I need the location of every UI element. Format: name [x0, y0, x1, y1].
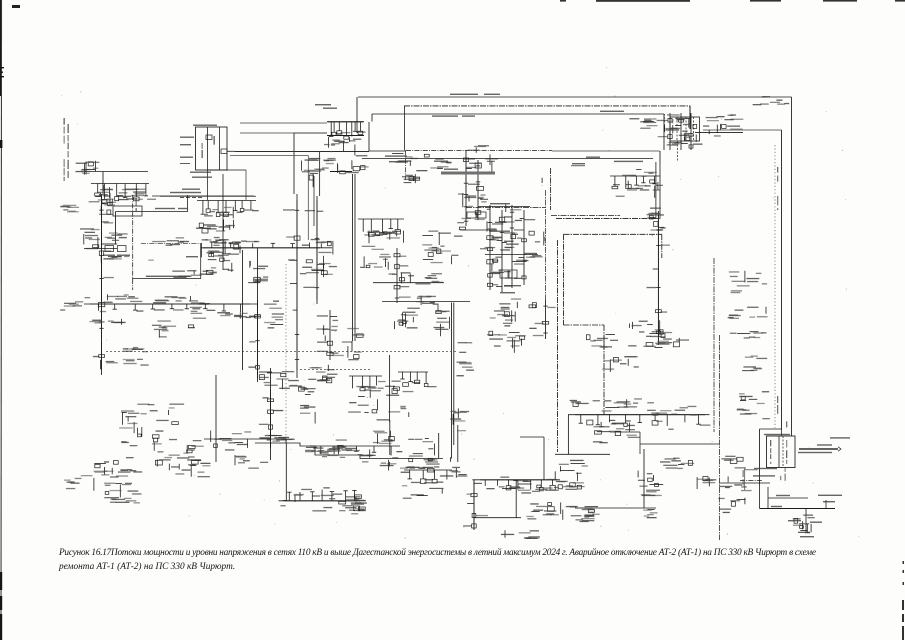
bus 248 right: [201, 247, 332, 249]
substation 610 comb: [610, 176, 663, 191]
substation 489: [490, 298, 537, 329]
vertical label column left 2: [68, 124, 69, 178]
chain left: [89, 194, 111, 215]
bus far-left vertical: [101, 194, 103, 375]
label 830: [830, 437, 850, 438]
substation 300-160: [302, 158, 329, 187]
labels 360-250: [360, 246, 391, 270]
frame box2: [221, 149, 227, 154]
label Chiryurt110 top: [193, 125, 217, 126]
bus 150 dashdot: [406, 149, 552, 151]
labels VL35: [123, 347, 148, 352]
labels 368-430: [373, 431, 394, 444]
wire 201 down: [201, 243, 203, 257]
wire dashdot 466: [465, 158, 467, 208]
substation 352: [346, 496, 367, 514]
bus 479: [472, 479, 560, 481]
region dashdot bottom1: [551, 215, 620, 217]
substation big 346: [348, 381, 413, 421]
svg-text:ремонта АТ-1 (АТ-2) на ПС 330: ремонта АТ-1 (АТ-2) на ПС 330 кВ Чирюрт.: [58, 561, 235, 572]
block inner AT-1: [676, 117, 678, 141]
substation 585: [587, 420, 640, 443]
chain chir330c: [684, 113, 703, 150]
bus dotted 351: [106, 351, 456, 353]
wire drop 246: [245, 170, 247, 200]
label PS330 top: [764, 434, 790, 435]
wire label 571: [571, 165, 585, 167]
frame inner v1: [778, 436, 780, 468]
substation 79-225: [80, 228, 100, 249]
label left1: [180, 137, 194, 138]
scan edge left bottom dashes: [0, 572, 2, 640]
substation 460: [461, 145, 498, 220]
wire drop 207: [207, 170, 209, 200]
labels 160-270: [172, 270, 217, 278]
scan edge left line: [0, 0, 3, 640]
wire dashdot br left: [740, 480, 762, 482]
bus center v2: [451, 303, 453, 446]
labels 208: [211, 431, 252, 451]
annotation region top: [116, 211, 188, 213]
wire dashdot 714: [713, 258, 715, 432]
wire dashdot 405 down: [405, 150, 407, 180]
bus 414: [568, 414, 710, 416]
substation small left: [76, 161, 100, 175]
substation 628: [628, 320, 663, 347]
region2 dashdot right: [603, 325, 605, 415]
arrow head: [838, 447, 841, 451]
chain 524: [515, 210, 536, 285]
labels 727e: [737, 391, 770, 419]
transformer block Chiryurt330: [670, 117, 700, 141]
wire 314: [313, 176, 315, 226]
label skat: [180, 241, 189, 242]
labels 150: [153, 296, 190, 303]
label: [323, 108, 337, 109]
rot label 541: [542, 178, 543, 186]
substation 117 box: [118, 246, 127, 252]
chain 658 boxes: [647, 215, 673, 340]
substation Belidzhi: [638, 471, 663, 496]
wire block drop: [689, 106, 691, 129]
wire: [575, 507, 584, 509]
bus 439: [204, 438, 286, 440]
bus 158: [362, 157, 653, 159]
region2 dashdot top: [564, 233, 662, 235]
wire: [663, 114, 665, 150]
annotation bottom line: [132, 278, 201, 280]
label 103: [103, 255, 115, 256]
substation Artem frame: [767, 436, 796, 468]
chain chir330b: [675, 113, 691, 150]
wire 163 stub: [180, 163, 190, 165]
bus414 comb: [575, 415, 710, 430]
bus VL330 top: [358, 96, 792, 98]
bus Makhachkala110: [84, 303, 258, 305]
wire 404 long: [404, 106, 406, 150]
chain 502: [495, 210, 515, 292]
chain Gaptsakh: [463, 480, 488, 530]
label chirGES sum on line: [146, 276, 190, 277]
vertical label column left: [64, 118, 65, 181]
wire: [351, 341, 353, 352]
rot labels below frame: [780, 476, 781, 480]
substation Kaspiysk: [119, 404, 184, 443]
svg-text:Рисунок 16.17Потоки мощности и: Рисунок 16.17Потоки мощности и уровни на…: [58, 547, 816, 558]
frame inner v2: [219, 127, 221, 170]
region2 dashdot left: [563, 234, 565, 325]
bottom band drops: [310, 446, 400, 459]
labels 727d: [742, 356, 767, 372]
wire 308: [307, 156, 309, 241]
scan speckle: [61, 67, 859, 538]
chain chir330a: [657, 113, 681, 150]
region2 dashdot bottom: [564, 324, 605, 326]
wire stub: [227, 150, 235, 152]
bus500 labels: [280, 494, 364, 512]
wire 658: [657, 211, 659, 345]
label VL330: [450, 94, 478, 95]
label above gray: [817, 444, 832, 445]
rot label 786: [786, 421, 787, 427]
labels 600-355: [602, 356, 639, 372]
label: [500, 292, 515, 293]
bus center v1b: [354, 174, 356, 341]
value box: [467, 212, 476, 218]
labels 455-340: [457, 342, 475, 376]
chain 317 boxes: [303, 200, 330, 300]
bus topmid lower: [327, 135, 364, 137]
frame rot AT-2: [786, 440, 787, 464]
label nagr: [186, 256, 198, 257]
bus 151b: [552, 150, 660, 152]
bus Yalama: [584, 507, 657, 509]
bus VL330 gray arrow: [799, 448, 838, 450]
wire 826: [825, 500, 827, 509]
wire 223 down: [222, 174, 224, 270]
substation Magaramkent: [526, 502, 560, 519]
chain 397: [389, 248, 411, 303]
label below gray: [798, 452, 832, 453]
bus 171: [330, 171, 352, 173]
bus Kizilyurt: [478, 206, 530, 208]
labels 450-408: [450, 408, 469, 431]
wire: [85, 171, 103, 173]
frame rot labels2: [214, 136, 215, 145]
chain 257 boxes: [248, 300, 260, 378]
wire dashdot 719: [719, 335, 721, 540]
labels 742: [753, 96, 790, 105]
wire br left v: [759, 429, 761, 485]
labels 85-468: [94, 469, 137, 477]
substation 420-230: [422, 227, 465, 264]
labels bus414 right: [647, 406, 699, 416]
wire dotted: [664, 114, 666, 130]
substation 105 box: [105, 246, 114, 252]
labels 301: [416, 296, 436, 305]
substation squiggle: [793, 515, 815, 534]
bottom band labels4: [362, 459, 440, 470]
wire into frame2: [781, 430, 783, 436]
wire: [473, 480, 475, 530]
wire block down: [677, 141, 679, 162]
labels 186-300: [188, 300, 210, 328]
region dashdot h243: [141, 242, 202, 244]
rot label 744: [743, 470, 744, 486]
wire 768: [767, 487, 769, 509]
label 771: [771, 506, 782, 507]
bus center v1: [352, 174, 354, 341]
bus left vertical: [296, 194, 298, 378]
substation topmid comb: [328, 122, 366, 141]
label gergebil: [182, 189, 200, 190]
substation 321: [324, 320, 365, 360]
wire 759 lower: [759, 485, 761, 509]
scan edge left bar: [0, 0, 2, 96]
label left3: [180, 157, 193, 158]
wire: [451, 445, 453, 459]
wire: [356, 97, 358, 133]
wire: [285, 439, 287, 443]
bus248 ticks: [203, 239, 320, 248]
wire 319: [319, 152, 321, 197]
bus 244 stub: [102, 243, 118, 245]
wire: [643, 449, 645, 508]
bus thick gray Makhachkala: [441, 172, 495, 175]
labels 230-455: [235, 455, 268, 469]
substation 394: [395, 308, 420, 330]
bottom band labels2: [259, 435, 294, 441]
wire: [368, 122, 370, 151]
substation br left net: [718, 456, 757, 513]
wire: [719, 482, 770, 484]
label 818: [818, 495, 842, 496]
substation kizilyurt comb: [197, 201, 259, 217]
chain 101 boxes: [93, 210, 114, 370]
wire: [389, 420, 391, 455]
chain 270 boxes: [259, 390, 283, 448]
label 788: [788, 520, 801, 521]
wire: [438, 433, 440, 458]
labels bus414: [570, 398, 654, 411]
label kizilyurt1: [489, 231, 510, 232]
bus 301: [382, 301, 470, 303]
label: [524, 253, 537, 254]
bus dotted 369: [300, 369, 370, 371]
wire: [102, 172, 104, 195]
chain 330: [316, 310, 337, 360]
rot label 775b: [777, 396, 778, 414]
label left2: [180, 144, 191, 145]
labels 695-472: [697, 477, 716, 490]
wire 254: [485, 254, 538, 256]
substation central dense: [485, 204, 544, 273]
wire 132: [695, 132, 743, 134]
labels 500: [500, 477, 558, 494]
substation bl2: [94, 446, 142, 498]
annotation region left: [115, 212, 117, 245]
substation 646: [647, 208, 664, 231]
region dashdot v133: [132, 195, 134, 290]
wire 230: [460, 229, 497, 231]
scan edge right dots: [902, 561, 904, 640]
block inner v3: [693, 117, 695, 141]
substation 185-455: [187, 456, 210, 477]
substation chir330: [665, 114, 697, 145]
bus479 comb: [480, 480, 559, 492]
labels 282: [399, 272, 443, 284]
region2 dashdot rightedge: [661, 234, 663, 258]
substation left2: [98, 185, 115, 215]
label filter Shamkhal: [170, 192, 201, 193]
labels 500-528: [501, 530, 540, 539]
labels 88-318: [90, 319, 126, 325]
wire: [103, 171, 148, 173]
labels 60-475: [64, 475, 94, 491]
labels 210-312: [217, 312, 260, 318]
block labels2: [688, 119, 689, 139]
substation 358 lower: [367, 230, 403, 243]
label +68: [155, 208, 175, 209]
label 776: [776, 495, 790, 496]
label kizilyurt2: [490, 203, 510, 204]
wire: [567, 415, 569, 454]
bus 454: [555, 453, 610, 455]
substation 358 comb: [358, 219, 404, 236]
frame inner v1: [207, 127, 209, 170]
region dashdot left: [550, 168, 552, 210]
substation 642: [646, 334, 689, 348]
wire br jog: [760, 428, 782, 430]
labels 60: [60, 205, 79, 213]
frame box: [206, 135, 212, 140]
wire: [659, 151, 661, 162]
substation 349 comb: [349, 376, 384, 391]
region dashdot bottom2: [556, 218, 655, 220]
wire: [215, 375, 217, 462]
wire into frame: [791, 430, 793, 436]
value box2: [477, 212, 486, 218]
label 1-10: [190, 172, 211, 173]
scan edge left ticks: [0, 67, 4, 148]
frame bottom: [208, 169, 229, 171]
substation 402: [402, 174, 420, 183]
label row below frame2: [753, 475, 775, 476]
wire 282: [373, 282, 444, 284]
wire dash bl: [180, 197, 203, 199]
substation topmid lower: [323, 137, 369, 174]
wire: [270, 368, 272, 460]
labels 152-236: [152, 237, 221, 246]
labels 246-255: [248, 261, 268, 283]
chain 545 boxes: [533, 300, 556, 339]
substation bl3: [152, 440, 204, 475]
rot label 135: [136, 198, 137, 212]
wire 257: [257, 249, 259, 383]
wire dotted: [285, 264, 287, 443]
bus VL330 Chiryurt: [372, 113, 664, 115]
label row below frame: [754, 468, 777, 469]
wire: [389, 355, 391, 422]
bus right v2: [781, 130, 783, 430]
annotation right v: [200, 244, 202, 279]
label: [504, 285, 521, 286]
labels 100-497: [104, 498, 140, 504]
wire dashdot 207: [466, 207, 546, 209]
wire 655: [655, 162, 657, 219]
block labels: [672, 119, 673, 134]
wire: [474, 517, 521, 519]
bus center v2b: [453, 303, 455, 446]
label stan: [119, 237, 127, 238]
label +13: [192, 177, 212, 178]
bus 151 left: [235, 151, 369, 153]
label 800: [800, 536, 814, 537]
labels 262-300: [264, 301, 284, 329]
substation 299: [300, 241, 337, 277]
bus right v dotted: [774, 145, 776, 428]
labels 432-300: [433, 304, 450, 337]
label 810: [810, 522, 822, 523]
wire 432: [610, 431, 640, 433]
chain 478: [466, 160, 488, 220]
substation 610: [613, 169, 661, 197]
labels 560-512: [580, 514, 600, 523]
block inner AT-2: [685, 117, 687, 141]
bus dashdot 106: [404, 105, 690, 107]
chain 297 boxes: [283, 200, 300, 370]
labels 586-330: [586, 335, 618, 350]
labels 660-455: [660, 458, 694, 469]
wire: [457, 425, 459, 462]
frame rot labels: [202, 143, 203, 158]
box 113: [113, 206, 142, 216]
wire dashdot 557: [557, 240, 559, 452]
bus 155 gray: [230, 155, 308, 157]
bus topmid upper: [327, 121, 364, 123]
scan edge top dashes: [560, 0, 905, 2]
labels: [117, 189, 146, 198]
bus 248 left: [84, 248, 117, 250]
labels 727a: [729, 271, 767, 293]
substation 404 comb: [404, 470, 452, 483]
substation 91 comb: [91, 184, 156, 204]
labels 248: [208, 241, 257, 257]
label 117b: [117, 255, 130, 256]
substation kizilyurt lower: [199, 207, 235, 233]
chain 466: [457, 150, 480, 226]
labels 60-300: [60, 301, 83, 310]
wire 498: [768, 497, 808, 499]
label Artem110: [434, 161, 448, 162]
substation 486: [487, 331, 526, 353]
bus right v1: [791, 97, 793, 430]
wire 242: [242, 250, 244, 370]
labels 727c: [730, 331, 767, 339]
wire: [316, 196, 318, 304]
rot labels below frame3: [785, 467, 786, 483]
wire 187 up: [187, 195, 189, 212]
labels 448-462: [449, 467, 467, 478]
label -13: [196, 228, 211, 229]
labels 95-255: [101, 256, 154, 263]
wire 806: [805, 509, 807, 534]
bottom band labels: [305, 438, 434, 457]
frame inner v2 dashed: [782, 436, 784, 468]
labels naMakh: [85, 294, 143, 302]
wire link right 130: [703, 129, 782, 131]
top left corner mark: [12, 5, 20, 8]
